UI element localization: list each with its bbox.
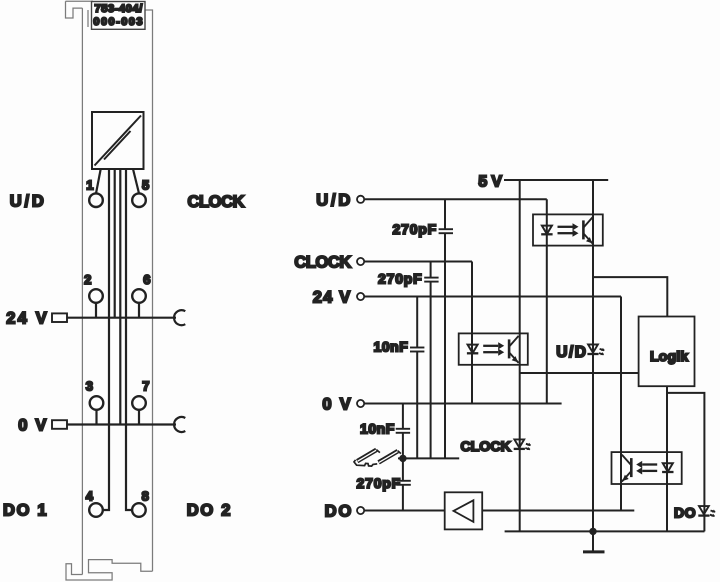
svg-text:5: 5 [142, 178, 149, 193]
svg-text:CLOCK: CLOCK [294, 254, 351, 272]
svg-text:5 V: 5 V [478, 173, 502, 190]
svg-text:000-003: 000-003 [93, 16, 144, 28]
svg-text:24 V: 24 V [313, 289, 352, 307]
svg-text:270pF: 270pF [378, 270, 422, 286]
svg-text:DO 2: DO 2 [187, 502, 232, 520]
svg-text:24 V: 24 V [6, 310, 49, 328]
svg-text:CLOCK: CLOCK [188, 193, 245, 211]
svg-text:6: 6 [143, 272, 150, 287]
svg-text:10nF: 10nF [360, 420, 395, 436]
svg-text:753-404/: 753-404/ [95, 3, 143, 15]
svg-text:DO: DO [325, 503, 354, 521]
svg-text:3: 3 [86, 378, 93, 393]
svg-text:10nF: 10nF [374, 339, 409, 355]
svg-text:DO 1: DO 1 [3, 502, 48, 520]
svg-text:1: 1 [86, 178, 93, 193]
svg-text:270pF: 270pF [393, 221, 437, 237]
svg-text:4: 4 [86, 489, 94, 504]
svg-text:U/D: U/D [316, 191, 353, 209]
svg-text:2: 2 [84, 272, 91, 287]
svg-text:DO: DO [674, 505, 696, 521]
svg-text:8: 8 [142, 489, 149, 504]
svg-text:U/D: U/D [556, 344, 587, 361]
svg-text:7: 7 [142, 378, 149, 393]
svg-text:0 V: 0 V [18, 417, 48, 435]
svg-text:CLOCK: CLOCK [460, 439, 511, 455]
svg-text:U/D: U/D [10, 192, 47, 210]
svg-text:0 V: 0 V [322, 396, 352, 414]
svg-text:Logik: Logik [650, 348, 688, 364]
svg-text:270pF: 270pF [357, 475, 401, 491]
